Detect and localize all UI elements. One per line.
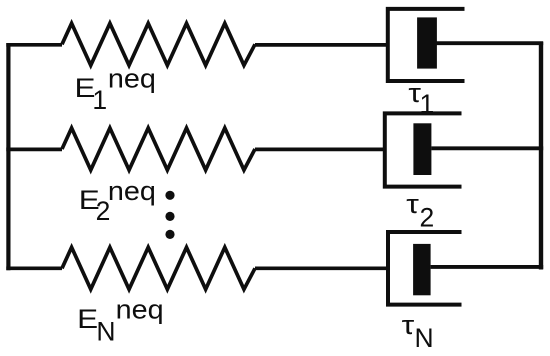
wire: branch 1 left segment	[6, 43, 62, 47]
wire: piston rod 2 to right bus	[431, 146, 543, 150]
svg-text:E: E	[77, 304, 98, 334]
label tau 1	[408, 79, 434, 119]
spring E1 (resistor-style zigzag)	[62, 23, 255, 65]
dashpot piston 3	[413, 244, 431, 295]
svg-text:N: N	[96, 317, 115, 347]
dashpot cylinder 2	[385, 113, 462, 186]
ellipsis dots between branch 2 and branch 3	[165, 191, 174, 239]
wire: branch 3 left segment	[6, 266, 62, 270]
wire: branch 1 segment spring to dashpot	[255, 43, 389, 47]
svg-text:1: 1	[92, 85, 107, 115]
svg-text:2: 2	[420, 202, 435, 232]
label E1 neq	[75, 64, 156, 115]
svg-text:τ: τ	[406, 190, 419, 219]
wire: branch 2 left segment	[6, 148, 62, 152]
wire: left vertical bus	[6, 43, 10, 270]
dashpot cylinder 1	[388, 9, 465, 81]
wire: branch 3 segment spring to dashpot	[255, 266, 389, 270]
svg-text:N: N	[415, 323, 434, 353]
svg-text:τ: τ	[402, 311, 415, 340]
svg-text:1: 1	[420, 89, 435, 119]
wire: piston rod 1 to right bus	[437, 41, 544, 45]
svg-text:neq: neq	[108, 64, 156, 94]
dashpot piston 2	[413, 123, 431, 175]
label tau 2	[406, 190, 434, 232]
spring EN (resistor-style zigzag)	[62, 247, 255, 289]
label tau N	[402, 311, 434, 353]
svg-text:neq: neq	[116, 295, 164, 325]
wire: branch 2 segment spring to dashpot	[255, 148, 386, 152]
label E2 neq	[79, 176, 156, 226]
wire: right vertical bus	[539, 42, 543, 270]
dashpot piston 1	[417, 17, 437, 68]
svg-text:neq: neq	[108, 176, 156, 206]
dashpot cylinder 3	[388, 232, 462, 305]
wire: piston rod 3 to right bus	[431, 265, 544, 269]
label EN neq	[77, 295, 164, 347]
spring E2 (resistor-style zigzag)	[62, 128, 255, 170]
